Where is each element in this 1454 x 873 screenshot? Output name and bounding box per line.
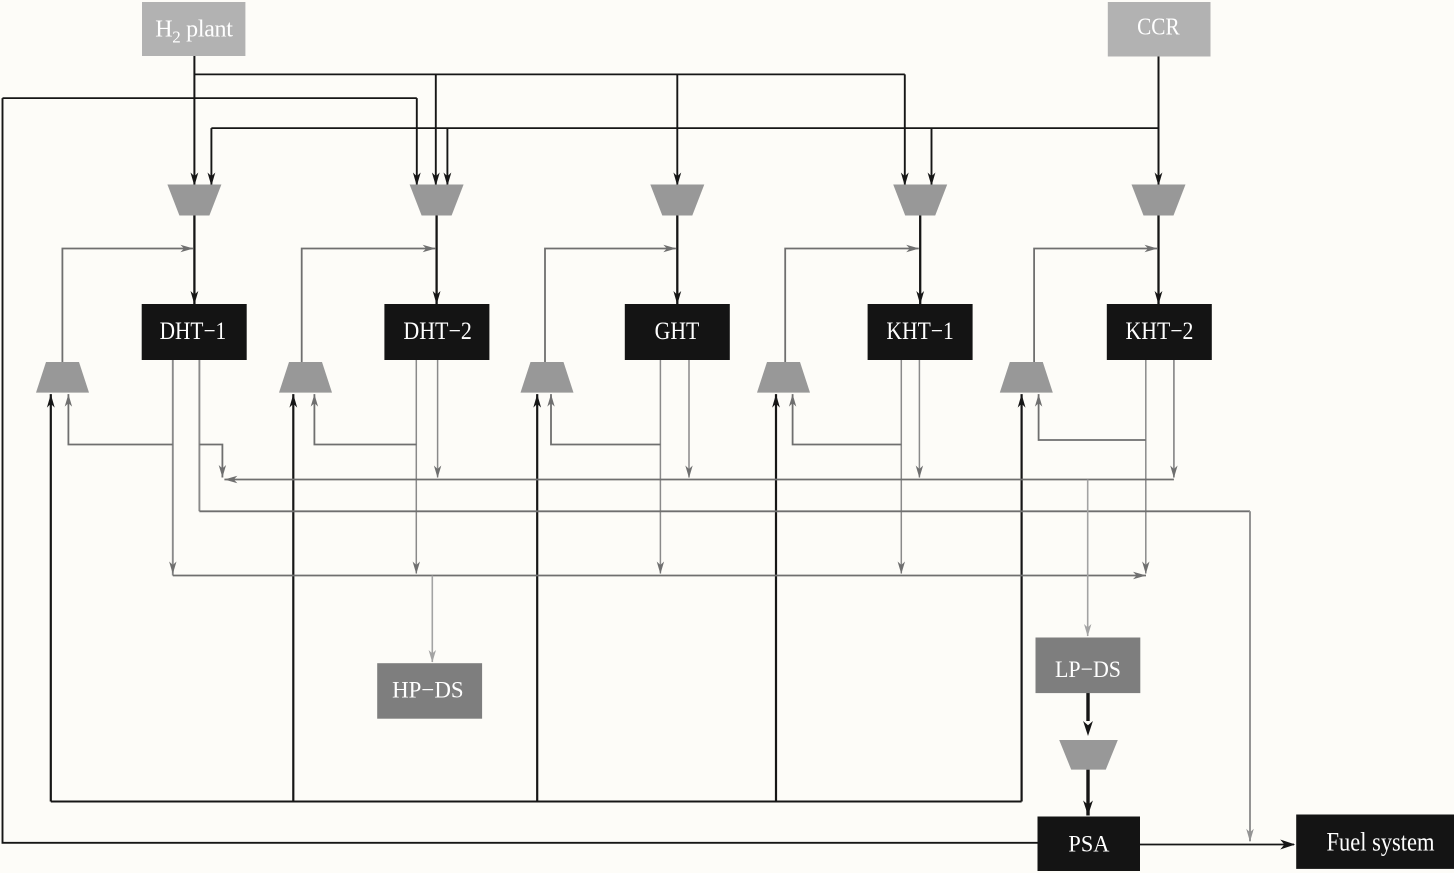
svg-text:GHT: GHT xyxy=(655,318,700,345)
svg-text:LP−DS: LP−DS xyxy=(1055,657,1121,683)
svg-text:DHT−1: DHT−1 xyxy=(160,318,227,345)
svg-text:H2 plant: H2 plant xyxy=(155,16,233,46)
svg-text:KHT−1: KHT−1 xyxy=(886,318,953,345)
svg-text:KHT−2: KHT−2 xyxy=(1126,318,1194,345)
svg-text:CCR: CCR xyxy=(1137,15,1180,41)
svg-text:PSA: PSA xyxy=(1068,831,1109,857)
svg-text:DHT−2: DHT−2 xyxy=(403,318,472,345)
svg-text:Fuel system: Fuel system xyxy=(1327,827,1435,856)
svg-text:HP−DS: HP−DS xyxy=(392,678,464,704)
